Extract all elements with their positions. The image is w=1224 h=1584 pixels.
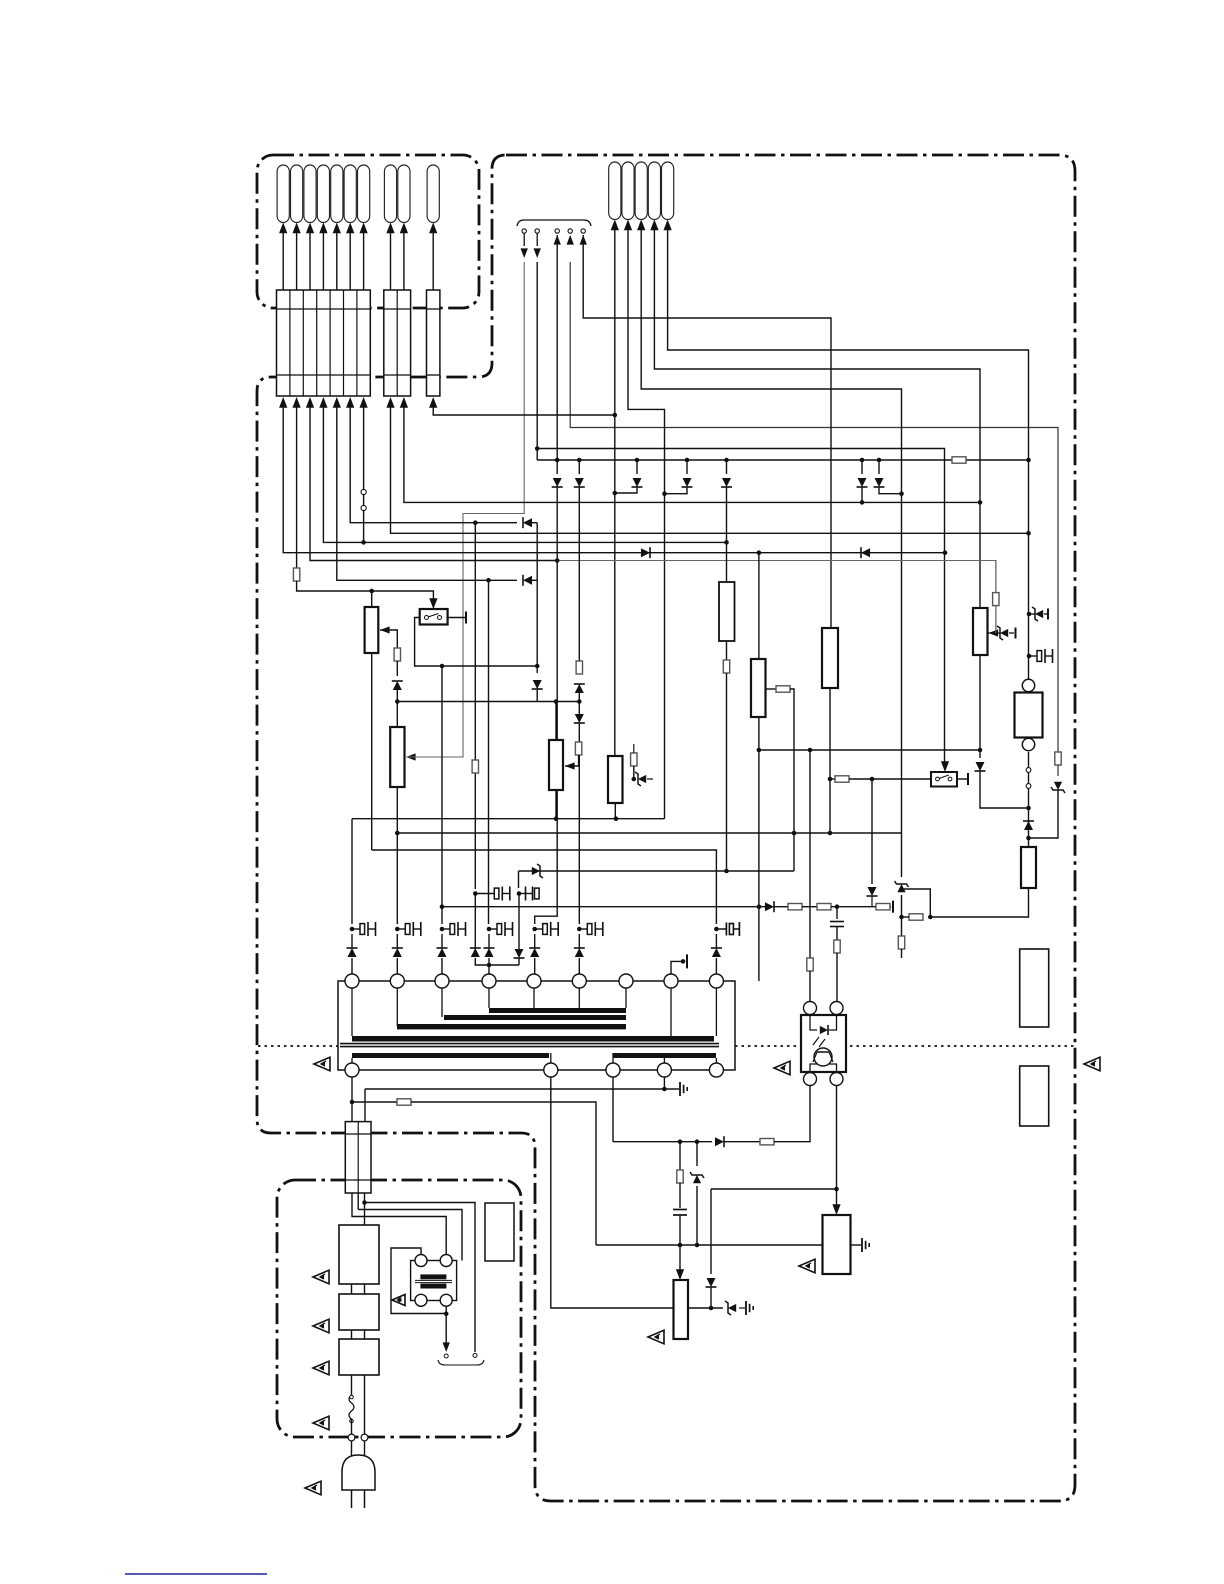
junction y1308 (709, 1306, 714, 1311)
frame: secondary connector block border (top-left) (257, 155, 479, 308)
junction x489 y965 (487, 963, 492, 968)
wire: pin 671 stub (671, 961, 684, 974)
wire: feeder line y850 (372, 850, 717, 924)
wire: D3 elbow to CN-D p1 net (615, 487, 637, 493)
junction y1141 (678, 1139, 700, 1144)
wire: y871 corner down to C11 (518, 871, 520, 888)
diode D15 (975, 762, 984, 771)
arrow: harness-1 into pot P2 (406, 753, 416, 760)
T1 pin stubs (352, 988, 716, 1063)
junction P1 chain (395, 699, 400, 704)
wire: line y1102 (352, 1101, 397, 1103)
warning triangle W5 (648, 1330, 664, 1344)
wire: P3 top (555, 702, 557, 741)
wire: S2 right lead (957, 778, 968, 780)
T1 secondary-side pins (bottom circles) (345, 1063, 723, 1077)
border-crossing circles (348, 1434, 368, 1441)
frame: AC input block border (bottom-left) (277, 1180, 521, 1437)
thermal fuse TF1 (349, 1395, 354, 1419)
wire: R8 top stub (633, 744, 635, 753)
wire: x488 feed (488, 580, 490, 924)
diode D30 (715, 1137, 724, 1146)
wire: line y871 (519, 870, 795, 872)
junction x1029 upper (1027, 612, 1032, 659)
line filter block FL2 (339, 1294, 379, 1330)
wire: T2 bottom leads (445, 1306, 447, 1345)
junction T2 lead (444, 1312, 449, 1317)
wire: D31 tail (710, 1287, 712, 1308)
arrow into U6 (832, 1204, 840, 1215)
wire: seg3 (831, 906, 876, 908)
jumper open circles on CN-A p7 wire (361, 489, 366, 510)
wire: C2 to R19 (836, 927, 838, 941)
wire: switch feed line y448 (537, 449, 944, 766)
wire: D13 down to cap row (578, 723, 580, 924)
terminal bar RL1 (465, 612, 467, 624)
wire: ZD6 stub up (696, 1142, 698, 1166)
diodes D1-D7 (rectifier row) (552, 458, 885, 487)
pass transistor Q2 (973, 608, 988, 655)
warning triangle W2 (774, 1061, 790, 1075)
wire: p5 line diode to node (528, 579, 537, 581)
ground G1 (679, 1082, 681, 1096)
junction y871 (724, 869, 729, 874)
resistor R1 (293, 568, 299, 581)
bracket under T2 (438, 1360, 484, 1365)
zener ZD2 (1000, 629, 1008, 637)
footer rule (125, 1573, 267, 1575)
wire: CN-D pin1 long vertical (614, 222, 616, 756)
diode D31 (706, 1278, 715, 1287)
junction y1245 (678, 1243, 700, 1248)
rectifier diodes D20-D28 row (347, 948, 722, 958)
wire: CN-B p1 route (391, 404, 1029, 533)
wire: R9 to S2 (849, 778, 931, 780)
resistor R18 (807, 958, 813, 971)
wire: below FL3 right (364, 1375, 366, 1434)
IC U4 block (608, 756, 623, 803)
wire: U2 top feed (758, 553, 760, 659)
resistor R15 (788, 904, 802, 910)
resistor block R12 (1021, 847, 1036, 888)
arrow into RL1 (429, 598, 437, 609)
resistor R4 (576, 661, 582, 674)
junction D4/p2 (662, 491, 667, 496)
wire: U3 down (829, 688, 831, 833)
capacitor C2 (830, 922, 844, 927)
sub-frame around relay driver (391, 1248, 444, 1314)
wire: T1 pin 352 down (351, 1077, 353, 1122)
arrow into Q2 (989, 629, 999, 636)
load block LB2 (1020, 1066, 1049, 1126)
wire: x1057 to 838 (1029, 790, 1059, 838)
wire: ZD7 to ground (739, 1307, 745, 1309)
wire: feeder line y818 (352, 818, 665, 820)
warning triangle W6 (313, 1270, 329, 1284)
wire: T1 pin 664 down (663, 1077, 665, 1089)
wire: harness-1 gray tail to pot P2 (406, 750, 463, 757)
wire: rectifier top bus (537, 459, 1028, 461)
wire: gray col lower (995, 606, 997, 633)
frame: main power-supply PCB border (L-shaped) (257, 155, 1075, 1501)
zener ZD3 (1035, 610, 1043, 618)
junction ZD2 (994, 631, 999, 636)
wire: x872 down (871, 779, 873, 884)
wire: R18 to opto (809, 971, 811, 1001)
junction upper cap C10 (473, 891, 478, 896)
resistor R2 (on bus) (952, 457, 966, 463)
terminal bar feed row (892, 901, 894, 913)
wire: P1 wiper link (380, 630, 397, 648)
wire: R3 to D8 (396, 661, 398, 676)
wire: below FL3 left (351, 1375, 353, 1395)
switch S2 box (931, 772, 957, 787)
wire: x475 tail (474, 894, 476, 951)
pot P3 (549, 740, 563, 790)
junction upper cap C11 (517, 891, 522, 896)
wire: P1 bottom chain (371, 653, 373, 850)
IC U2 block (751, 659, 766, 717)
wire: D15 to elbow (980, 771, 1029, 808)
junction x836 y1189 (834, 1187, 839, 1192)
wire: CN-C p1 route (433, 404, 615, 415)
terminal bar ZD3 (1047, 609, 1049, 620)
junction y750 (808, 748, 983, 753)
diode D9 (533, 680, 542, 689)
wire: R6 down elbow (726, 673, 728, 871)
arrow into pot P3 (565, 762, 575, 769)
wire: P2 bottom to cap row (396, 787, 398, 924)
wire: under F1 right (364, 1193, 366, 1225)
wire: TF1 down (351, 1419, 353, 1434)
ground G3 (745, 1301, 747, 1315)
connector CN-B pins 1-2 (pill terminals) (384, 165, 410, 223)
wire: D4 elbow down-left (665, 487, 688, 494)
resistor R10 (gray column) (993, 593, 999, 606)
wire: R12 bottom elbow (930, 888, 1028, 917)
wire: C12 down (679, 1215, 681, 1245)
arrows into connector bottoms (279, 397, 437, 408)
wire: F1 elbow 1 (365, 1203, 476, 1257)
wire: CN-A p7 route (jumper) (363, 404, 365, 542)
wire: under F1 left (352, 1193, 446, 1255)
arrow into P1 wiper (380, 626, 390, 633)
wire: plug leads (351, 1441, 353, 1456)
line filter block FL3 (339, 1339, 379, 1375)
regulator U5 (674, 1280, 689, 1339)
connector CN-B body (384, 290, 411, 396)
T1 winding W1 (489, 1008, 626, 1013)
wire: D8 to node (396, 689, 398, 727)
junction dots y701 (535, 664, 582, 704)
capacitor C10 (el) (475, 893, 494, 895)
zener ZD4 (1054, 782, 1062, 790)
zener ZD5 (897, 884, 905, 892)
wire: line y750 (759, 749, 980, 751)
wire: x680 chain (679, 1142, 681, 1170)
wire: opto bottom right down (836, 1086, 838, 1210)
diode D13 (575, 714, 584, 723)
stubs cap row to pins (352, 934, 716, 974)
wire: U2 bottom down (758, 717, 760, 981)
wire: line y1102 cont (411, 1102, 596, 1245)
wire: line y1245 (596, 1244, 823, 1246)
wire: T1 pin551 down (551, 1077, 674, 1308)
terminal bar ZD2 (1015, 628, 1017, 639)
wire: CN-D pin2 route (628, 222, 665, 819)
wires between filter blocks (352, 1284, 365, 1339)
wire: x519 lower link (518, 958, 520, 965)
pot P1 (365, 607, 379, 653)
junction x830 (828, 777, 833, 836)
connector CN-C body (427, 290, 440, 396)
wire: R19 to opto (836, 953, 838, 1001)
wire: x475 down (474, 1256, 476, 1352)
connector CN-D pins 1-5 (pill terminals) (609, 162, 674, 220)
warning triangle W3 (1084, 1057, 1100, 1071)
diode D11 (in p5 line) (523, 576, 532, 585)
wire: RL1 left lead down (415, 618, 538, 667)
resistor R22 (677, 1170, 683, 1183)
wire: R1 to RL1 feed (297, 581, 434, 602)
resistor R16 (817, 904, 831, 910)
wire: ZD3 stub (1029, 613, 1036, 615)
resistor R19 (834, 940, 840, 953)
wire: x442 feed (441, 666, 443, 924)
capacitor C12 (673, 1210, 687, 1216)
resistor R5 (575, 742, 581, 755)
warning triangle W1 (314, 1057, 330, 1071)
resistor R14 (898, 936, 904, 949)
resistor R23 (on x475 feed) (472, 760, 478, 773)
resistor R8 (631, 753, 637, 766)
T1 secondary winding W6 (613, 1053, 716, 1058)
resistor R7 (776, 686, 790, 692)
connector CN-A body (277, 290, 371, 396)
relay RL1 (power switch) (420, 609, 448, 625)
regulator U6 (823, 1215, 851, 1274)
wire: line y1141 (613, 1141, 712, 1143)
junction pin671 stub (681, 959, 686, 964)
wire: R22 to C12 (679, 1183, 681, 1208)
resistor R11 (col x1057) (1055, 752, 1061, 765)
diode D17 (765, 902, 774, 911)
capacitor C11 (el, mirrored) (519, 893, 526, 895)
wire: ground line y1089 (365, 1088, 679, 1090)
wire: D2 stub down (578, 487, 580, 661)
optocoupler PC1 (801, 1002, 846, 1086)
wire: node line y701 (397, 701, 579, 703)
frame around filter transformer (411, 1261, 457, 1301)
wire: x1057 mid (1057, 765, 1059, 776)
wire: seg4 (890, 906, 891, 908)
T1 secondary winding W5 (352, 1053, 549, 1058)
wire: F1 elbow 2 (358, 1210, 462, 1261)
wire: U2 right lead (766, 688, 777, 690)
junction P2/feed line (395, 831, 400, 836)
block K1 (485, 1203, 514, 1261)
wire: harness-2 to rectifier bus (536, 262, 538, 460)
wire: harness-4 down then right (570, 262, 1058, 752)
junction x758 (757, 748, 762, 909)
wire: x901 tail (901, 949, 903, 958)
wire: opto right pin up (836, 907, 838, 919)
wire: D6 stub (861, 487, 863, 502)
junction pin352 (350, 1100, 355, 1105)
wire: U5 right side (688, 1307, 723, 1309)
junction x442 (440, 664, 445, 669)
junction D7/p3 (899, 491, 904, 496)
wire: CN-A p5 route (337, 404, 517, 580)
wire: D7 elbow (879, 487, 902, 494)
zener ZD1 (638, 775, 646, 783)
diode D12 (575, 684, 584, 693)
diode D10 (in p6 line) (523, 518, 532, 527)
wire: R8 to zener (633, 766, 635, 779)
wire: D12-D13 link (578, 691, 580, 715)
wire: R5 to P3 (565, 755, 579, 766)
ground G2 (861, 1238, 863, 1252)
AC plug PL1 (342, 1455, 375, 1490)
wire: opto feed line (442, 906, 766, 908)
arrow into S2 (941, 761, 949, 772)
junction y448 (535, 446, 540, 451)
capacitor C9 (714, 927, 719, 932)
warning triangle W8 (313, 1361, 329, 1375)
resistor R20 (397, 1099, 411, 1105)
wire: D5 into Q1 (726, 487, 728, 582)
warning triangle W4 (799, 1259, 815, 1273)
open circles under RL2 (1026, 768, 1031, 789)
junction y917 (899, 915, 932, 920)
wire: mid vertical node x537 (536, 523, 538, 673)
wire: T1 pin 613 down (612, 1077, 614, 1142)
wire: RL2 bottom lead (1028, 752, 1030, 838)
pot P2 (390, 727, 404, 787)
resistor R6 (723, 660, 729, 673)
wire: x475 feed (474, 523, 476, 889)
diode D14 (867, 887, 876, 896)
wire: x475-x519 link (475, 958, 519, 965)
wire: fuse col feeds (364, 1089, 366, 1122)
T1 primary winding W4 (352, 1036, 714, 1042)
open circles TF1 (350, 1395, 354, 1423)
warning triangle W9 (313, 1416, 329, 1430)
capacitor C1 (el) (1029, 655, 1037, 657)
warning triangle W7 (313, 1319, 329, 1333)
isolation barrier dotted line (258, 1045, 1074, 1047)
wire: U6 right ground lead (851, 1244, 862, 1246)
wire: ZD1 bar stub (647, 778, 653, 780)
wire: R12 top (1028, 838, 1030, 847)
wire: CN-A p4 route (323, 404, 726, 542)
wire: D9 to line (536, 689, 538, 702)
wire: CN-B p2 route (404, 404, 980, 502)
T1 winding W2 (444, 1015, 626, 1020)
electrolytic capacitors C3-C8 row (350, 922, 603, 936)
wire: P3 bottom (555, 790, 557, 819)
wire: y1141 seg (724, 1141, 760, 1143)
wire: D1 chain down (535, 487, 558, 924)
wire: R13 to zener node (902, 916, 910, 918)
wire: ZD5 elbow (902, 889, 931, 917)
arrow down T2 lead (443, 1342, 450, 1352)
wire: to U5 (679, 1245, 681, 1270)
wire: y1141 to opto (774, 1086, 810, 1142)
diode D16 (1024, 821, 1033, 830)
wire: feeder line y833 (397, 832, 901, 834)
resistor R17 (876, 904, 890, 910)
zener ZD7 (728, 1304, 736, 1312)
wire: harness-3 down (556, 235, 558, 460)
warning triangle W10 (305, 1481, 321, 1495)
line filter block FL1 (339, 1225, 379, 1284)
wire: harness-1 (gray) down (463, 262, 524, 750)
wire: seg2 (802, 906, 817, 908)
connector CN-A pins 1-7 (pill terminals) (277, 165, 370, 223)
T1 core lines (340, 1044, 719, 1047)
junction x794 (792, 831, 797, 836)
junction y906 (835, 904, 840, 909)
wire: CN-A p2 route (via R to relay RL1) (296, 404, 298, 569)
junction dots on staircase (361, 413, 1030, 594)
junction under F1 (362, 1200, 367, 1205)
diode D18 (in p1 line) (641, 548, 650, 557)
wire: S2 feed line y779 (830, 778, 835, 780)
wire: P1 top feed (371, 591, 373, 607)
wire: seg (774, 906, 788, 908)
wire: y1189 line (711, 1188, 837, 1190)
junction zener ZD1 (632, 777, 637, 782)
wire: harness-5 down then right (583, 235, 831, 628)
wire: RL1 right lead (448, 617, 466, 619)
relay RL2 (1015, 679, 1043, 750)
wire: x352 down to cap row (351, 819, 353, 924)
wire: D14 to line (871, 896, 873, 907)
wire: U4 bottom (614, 803, 616, 819)
load block LB1 (1020, 949, 1049, 1027)
warning triangle W11 (392, 1294, 405, 1305)
arrow into U5 (676, 1269, 684, 1280)
transistor block Q1 (719, 582, 735, 641)
wire: ZD2 to bar (1009, 632, 1014, 634)
connector CN-C pin 1 (pill terminal) (427, 165, 439, 223)
resistor R3 (394, 648, 400, 661)
arrows into CN-D pills (611, 220, 672, 231)
wire: CN-D pin3 route (641, 222, 901, 877)
wire: x901 zener-resistor (901, 895, 903, 936)
diode D19 (in p1 line) (861, 548, 870, 557)
junction dot CN-D p1 / D3 (613, 491, 618, 496)
wire harness bracket (517, 220, 591, 226)
zener ZD8 (in line y871) (532, 867, 540, 875)
terminal bar S2 (967, 773, 969, 785)
wire: x711 down (710, 1189, 712, 1274)
wire: R7 elbow down (790, 689, 794, 871)
wires: pill leads with arrows into pills (279, 223, 437, 291)
wire: ZD3 tail (1044, 613, 1047, 615)
wire: ZD6 down (696, 1186, 698, 1245)
wire: Q1 emitter down (726, 641, 728, 660)
terminal circles under T2 (444, 1353, 477, 1358)
wire: CN-A p1 route (283, 404, 945, 553)
fuse/filter connector F1 (345, 1122, 371, 1193)
resistor R21 (760, 1139, 774, 1145)
junction x1028 838/808 (1026, 806, 1031, 841)
wire: x519 link (518, 894, 520, 950)
T1 winding W3 (397, 1024, 626, 1029)
wire: CN-D pin4 route (654, 222, 980, 608)
